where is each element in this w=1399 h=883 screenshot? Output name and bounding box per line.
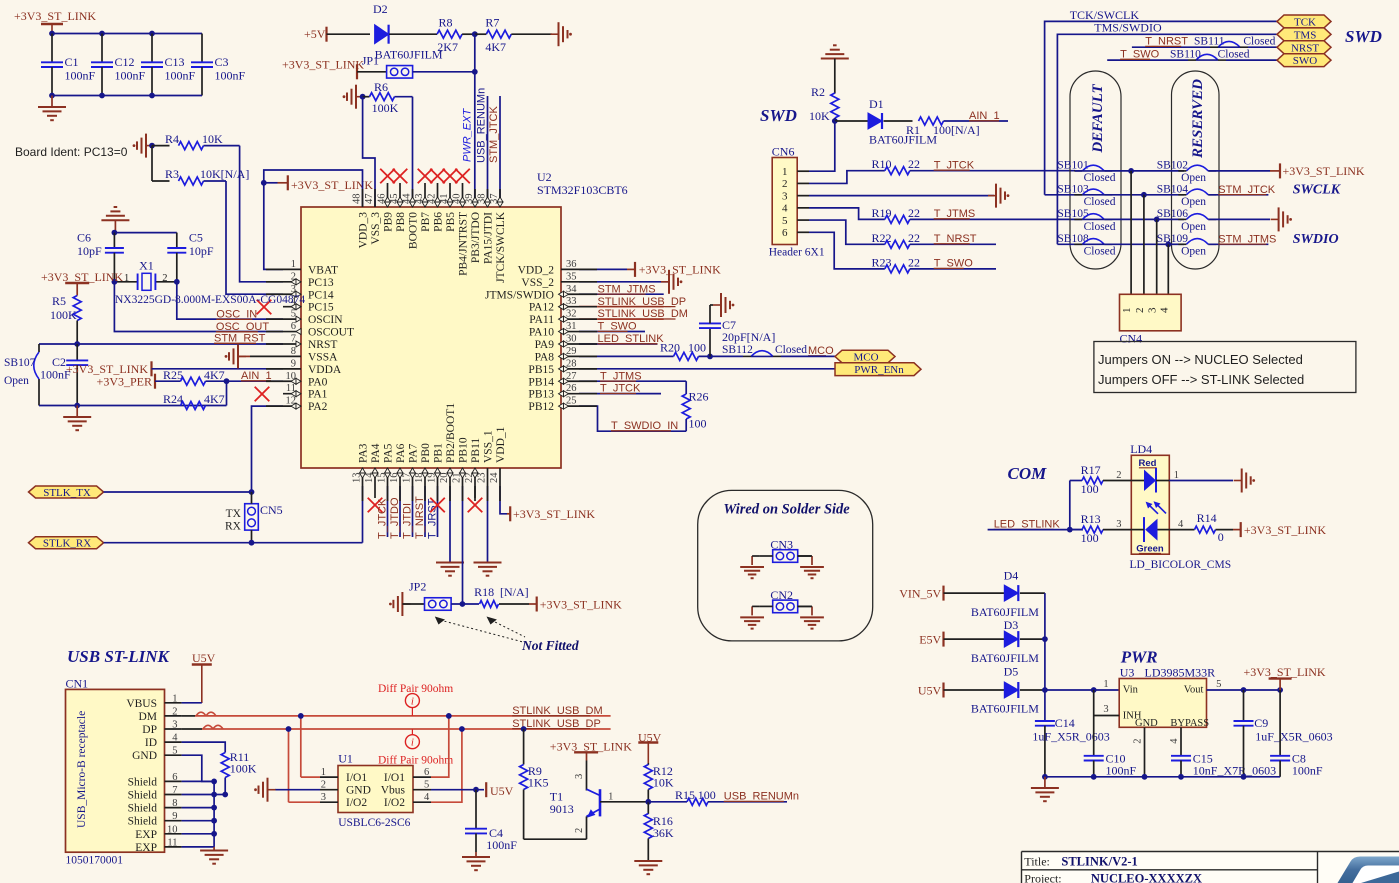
svg-text:2: 2 bbox=[574, 828, 585, 833]
svg-text:SWCLK: SWCLK bbox=[1293, 183, 1342, 198]
svg-text:R6: R6 bbox=[374, 80, 388, 94]
svg-text:U5V: U5V bbox=[490, 784, 514, 798]
group frame DEFAULT bbox=[1070, 71, 1121, 269]
ground (U1 GND) bbox=[275, 789, 320, 791]
wire JP1 to PWR_EXT net bbox=[413, 71, 475, 73]
svg-text:PB0: PB0 bbox=[420, 443, 432, 463]
pin 9 CN1 Shield bbox=[165, 820, 182, 822]
pin 2 CN1 DM bbox=[165, 715, 182, 717]
svg-text:+3V3_ST_LINK: +3V3_ST_LINK bbox=[540, 598, 622, 612]
wire STLK_TX to PA2 bbox=[104, 491, 252, 493]
svg-text:JP1: JP1 bbox=[362, 54, 379, 68]
ground (R16) bbox=[634, 860, 662, 862]
svg-text:PB11: PB11 bbox=[470, 438, 482, 463]
svg-text:100: 100 bbox=[698, 788, 716, 802]
wire STLINK_USB_DM (pin32) bbox=[579, 318, 664, 320]
svg-text:PB9: PB9 bbox=[383, 212, 395, 232]
svg-text:1: 1 bbox=[124, 273, 129, 284]
ground (crystal) inverted bbox=[101, 219, 129, 221]
svg-text:C6: C6 bbox=[77, 231, 91, 245]
svg-text:100: 100 bbox=[1081, 531, 1099, 545]
svg-text:Board Ident: PC13=0: Board Ident: PC13=0 bbox=[15, 145, 128, 159]
pin stub overlays left bbox=[266, 268, 283, 270]
wire T_NRST (bottom stub) bbox=[424, 486, 426, 537]
wire EXP pin11 bbox=[182, 846, 215, 848]
wire T_SWDIO_IN (pin25) bbox=[579, 406, 686, 431]
svg-text:100nF: 100nF bbox=[1292, 764, 1323, 778]
ground (LD4) bbox=[1234, 480, 1242, 482]
svg-text:JTMS/SWDIO: JTMS/SWDIO bbox=[485, 289, 554, 301]
pin 17 PA7 bbox=[412, 468, 414, 486]
svg-text:10pF: 10pF bbox=[189, 244, 214, 258]
svg-text:Closed: Closed bbox=[775, 344, 807, 356]
capacitor C8 bbox=[1279, 690, 1281, 756]
svg-text:R25: R25 bbox=[163, 368, 183, 382]
svg-text:MCO: MCO bbox=[853, 352, 878, 364]
svg-text:5: 5 bbox=[782, 215, 788, 227]
svg-text:SB102: SB102 bbox=[1157, 159, 1189, 171]
diff pair hop DM bbox=[196, 712, 216, 716]
svg-text:U2: U2 bbox=[537, 170, 552, 184]
svg-text:+3V3_ST_LINK: +3V3_ST_LINK bbox=[14, 9, 96, 23]
svg-text:Jumpers OFF --> ST-LINK Select: Jumpers OFF --> ST-LINK Selected bbox=[1098, 372, 1304, 387]
svg-text:GND: GND bbox=[1135, 718, 1158, 729]
svg-text:TMS: TMS bbox=[1294, 29, 1317, 41]
wire CN4 pin3 bbox=[1156, 219, 1158, 294]
node R20/C7 junction bbox=[707, 354, 713, 360]
svg-text:7: 7 bbox=[291, 333, 296, 344]
no-connect X top pin x=387.5 bbox=[387, 183, 389, 189]
svg-text:4: 4 bbox=[1158, 307, 1170, 313]
svg-text:3: 3 bbox=[321, 792, 326, 803]
svg-text:NX3225GD-8.000M-EXS00A-CG04874: NX3225GD-8.000M-EXS00A-CG04874 bbox=[115, 294, 305, 306]
svg-text:I/O2: I/O2 bbox=[346, 797, 367, 809]
svg-text:10K: 10K bbox=[809, 109, 830, 123]
svg-text:DP: DP bbox=[142, 724, 157, 736]
capacitor C7 20pF bbox=[709, 328, 711, 356]
wire CN6 pin2 to R10 bbox=[809, 171, 885, 184]
wire STM_JTMS (pin34) bbox=[579, 293, 664, 295]
svg-text:1: 1 bbox=[1174, 470, 1179, 481]
pin 4 U1 I/O2 bbox=[413, 801, 431, 803]
svg-text:Closed: Closed bbox=[1084, 196, 1116, 208]
wire R4 to PC13 bbox=[240, 146, 283, 282]
svg-text:Title:: Title: bbox=[1024, 855, 1050, 869]
pin 3 CN1 DP bbox=[165, 728, 182, 730]
pin 42 PB6 bbox=[437, 189, 439, 207]
svg-text:1uF_X5R_0603: 1uF_X5R_0603 bbox=[1255, 729, 1332, 743]
svg-text:2: 2 bbox=[172, 706, 177, 717]
port PWR_ENn bbox=[835, 363, 921, 376]
wire CN4 pin1 bbox=[1130, 171, 1132, 294]
pin 32 PA11 bbox=[561, 318, 579, 320]
svg-text:100nF: 100nF bbox=[115, 69, 146, 83]
pin 23 VSS_1 bbox=[487, 468, 489, 486]
svg-text:VSS_2: VSS_2 bbox=[521, 277, 554, 289]
port SWO bbox=[1277, 54, 1331, 67]
svg-text:SB112: SB112 bbox=[722, 344, 753, 356]
svg-text:PB2/BOOT1: PB2/BOOT1 bbox=[445, 403, 457, 463]
svg-text:10K[N/A]: 10K[N/A] bbox=[200, 167, 249, 181]
svg-text:VSS_3: VSS_3 bbox=[370, 212, 382, 245]
wire VSS_1 to ground bbox=[487, 486, 489, 562]
port TCK bbox=[1277, 15, 1331, 28]
svg-text:9: 9 bbox=[172, 811, 177, 822]
wire top rail C1-C3 bbox=[52, 33, 202, 35]
svg-text:Vout: Vout bbox=[1184, 684, 1204, 695]
node SB108/CN4 pin4 bbox=[1165, 241, 1171, 247]
power flag +3V3_ST_LINK (LD4) bbox=[1233, 529, 1241, 531]
wire R6 to BOOT0 pin44 bbox=[412, 97, 414, 207]
resistor R16 bbox=[647, 802, 649, 814]
svg-text:EXP: EXP bbox=[135, 842, 157, 854]
svg-text:JP2: JP2 bbox=[409, 580, 426, 594]
pin 31 PA10 bbox=[561, 331, 579, 333]
wire U1 pin6 to DM bbox=[431, 716, 449, 777]
node R2/D1 junction bbox=[832, 118, 838, 124]
wire GND to VSS_3 pin47 bbox=[363, 97, 375, 207]
svg-text:I/O1: I/O1 bbox=[384, 772, 405, 784]
svg-text:+5V: +5V bbox=[304, 27, 326, 41]
ground (R2) inverted bbox=[821, 58, 849, 60]
svg-text:D3: D3 bbox=[1004, 618, 1019, 632]
resistor R11 bbox=[182, 742, 226, 752]
wire OSC_IN bbox=[177, 282, 283, 319]
no-connect X pin PA4 bbox=[374, 486, 376, 498]
svg-text:Not Fitted: Not Fitted bbox=[521, 638, 579, 653]
pin 5 OSCIN bbox=[283, 318, 301, 320]
pin 47 VSS_3 bbox=[374, 189, 376, 207]
svg-text:5: 5 bbox=[291, 309, 296, 320]
svg-text:PB5: PB5 bbox=[445, 212, 457, 232]
pin 30 PA9 bbox=[561, 343, 579, 345]
capacitor C14 bbox=[1035, 720, 1055, 722]
svg-text:PB6: PB6 bbox=[433, 212, 445, 232]
svg-text:36: 36 bbox=[566, 259, 577, 270]
svg-text:48: 48 bbox=[352, 194, 363, 205]
svg-text:PC15: PC15 bbox=[308, 302, 334, 314]
pin 14 PA4 bbox=[374, 468, 376, 486]
pin 1 VBAT bbox=[283, 268, 301, 270]
svg-text:U1: U1 bbox=[338, 751, 353, 765]
svg-text:SWD: SWD bbox=[760, 106, 797, 125]
svg-text:1K5: 1K5 bbox=[528, 776, 549, 790]
svg-text:Vbus: Vbus bbox=[381, 785, 406, 797]
svg-text:BAT60JFILM: BAT60JFILM bbox=[375, 48, 443, 62]
svg-text:1: 1 bbox=[291, 259, 296, 270]
svg-text:R1: R1 bbox=[906, 123, 920, 137]
svg-text:32: 32 bbox=[566, 309, 577, 320]
node shield rail junction bbox=[211, 831, 217, 837]
svg-text:BAT60JFILM: BAT60JFILM bbox=[971, 702, 1039, 716]
resistor R14 bbox=[1169, 529, 1194, 531]
svg-text:100nF: 100nF bbox=[1106, 764, 1137, 778]
svg-text:VDD_3: VDD_3 bbox=[358, 212, 370, 249]
resistor R26 bbox=[685, 381, 687, 394]
pin 7 CN1 Shield bbox=[165, 794, 182, 796]
svg-text:VDD_1: VDD_1 bbox=[495, 426, 507, 463]
svg-text:BAT60JFILM: BAT60JFILM bbox=[971, 605, 1039, 619]
pin 4 PC15 bbox=[283, 306, 301, 308]
wire CN4 pin2 bbox=[1143, 195, 1145, 294]
svg-text:DEFAULT: DEFAULT bbox=[1090, 83, 1106, 153]
solder bridge SB111 closed bbox=[1132, 46, 1210, 48]
svg-text:4: 4 bbox=[782, 203, 788, 215]
pin 21 PB10 bbox=[462, 468, 464, 486]
capacitor C12 bbox=[101, 34, 103, 63]
svg-text:4: 4 bbox=[172, 733, 178, 744]
port MCO bbox=[835, 350, 895, 363]
svg-text:2: 2 bbox=[1134, 308, 1146, 314]
node JP1/pin39 junction bbox=[472, 69, 478, 75]
svg-text:VDDA: VDDA bbox=[308, 364, 342, 376]
no-connect X top pin x=462.5 bbox=[462, 183, 464, 189]
power flag +3V3_ST_LINK (VDD_1) bbox=[500, 486, 507, 514]
svg-text:+3V3_ST_LINK: +3V3_ST_LINK bbox=[282, 58, 364, 72]
wire T_SWO (pin31) bbox=[579, 331, 645, 333]
svg-text:SB109: SB109 bbox=[1157, 233, 1189, 245]
note box jumpers bbox=[1094, 342, 1356, 393]
node JP2/PB10 bbox=[460, 601, 466, 607]
svg-text:SB107: SB107 bbox=[4, 357, 36, 369]
node STLK_TX/CN5 bbox=[249, 489, 255, 495]
capacitor C6 bbox=[113, 233, 115, 248]
pin 2 U1 GND bbox=[320, 789, 338, 791]
title block lines bbox=[1022, 852, 1399, 883]
svg-text:JTCK/SWCLK: JTCK/SWCLK bbox=[495, 211, 507, 283]
port NRST bbox=[1277, 41, 1331, 54]
svg-text:Closed: Closed bbox=[1084, 221, 1116, 233]
pin 43 PB7 bbox=[424, 189, 426, 207]
svg-text:PWR_ENn: PWR_ENn bbox=[854, 364, 904, 376]
port STLK_TX bbox=[29, 486, 104, 498]
LED red (LD4) bbox=[1144, 470, 1156, 492]
wire STLK_RX to PA3 bbox=[104, 542, 363, 544]
svg-text:CN6: CN6 bbox=[772, 144, 795, 158]
ground (R6) bbox=[356, 96, 364, 98]
svg-text:4: 4 bbox=[1178, 519, 1184, 530]
node R11/pin7 junction bbox=[222, 792, 228, 798]
svg-text:100nF: 100nF bbox=[165, 69, 196, 83]
svg-text:COM: COM bbox=[1008, 464, 1048, 483]
svg-text:D5: D5 bbox=[1004, 665, 1019, 679]
pin 40 PB4/JNTRST bbox=[462, 189, 464, 207]
svg-text:10K: 10K bbox=[202, 132, 223, 146]
pin stub overlays right bbox=[579, 268, 597, 270]
svg-text:ID: ID bbox=[145, 737, 157, 749]
svg-text:31: 31 bbox=[566, 321, 577, 332]
svg-text:PA15/JTDI: PA15/JTDI bbox=[483, 212, 495, 264]
svg-text:SB106: SB106 bbox=[1157, 208, 1189, 220]
svg-text:PWR_EXT: PWR_EXT bbox=[462, 108, 474, 162]
wire C2 ground rail bbox=[39, 405, 227, 407]
svg-text:+3V3_ST_LINK: +3V3_ST_LINK bbox=[513, 507, 595, 521]
svg-text:PA12: PA12 bbox=[529, 302, 554, 314]
svg-text:i: i bbox=[411, 737, 414, 749]
ground (CN2 left) bbox=[740, 616, 764, 618]
svg-text:C1: C1 bbox=[65, 55, 79, 69]
svg-text:I/O1: I/O1 bbox=[346, 772, 367, 784]
svg-text:VBAT: VBAT bbox=[308, 264, 338, 276]
svg-text:5: 5 bbox=[424, 780, 429, 791]
node T1 base junction bbox=[645, 799, 651, 805]
svg-text:1: 1 bbox=[172, 693, 177, 704]
svg-text:PA10: PA10 bbox=[529, 327, 554, 339]
svg-text:PA7: PA7 bbox=[408, 443, 420, 463]
svg-text:34: 34 bbox=[566, 284, 577, 295]
svg-text:PA3: PA3 bbox=[358, 443, 370, 463]
svg-text:10K: 10K bbox=[653, 776, 674, 790]
svg-text:VSS_1: VSS_1 bbox=[483, 430, 495, 463]
svg-text:6: 6 bbox=[172, 772, 177, 783]
svg-text:CN4: CN4 bbox=[1120, 331, 1143, 345]
wire CN6 pin5 to R22 bbox=[809, 220, 885, 244]
svg-text:C9: C9 bbox=[1254, 716, 1268, 730]
pin 48 VDD_3 bbox=[362, 189, 364, 207]
pin 6 CN1 Shield bbox=[165, 780, 182, 782]
wire JP2 to R18 bbox=[451, 603, 479, 605]
svg-text:PC13: PC13 bbox=[308, 277, 334, 289]
no-connect X pin PB11 bbox=[474, 486, 476, 498]
svg-text:D1: D1 bbox=[869, 97, 884, 111]
ground (C7) bbox=[713, 304, 721, 306]
svg-text:R26: R26 bbox=[689, 390, 709, 404]
pin 36 VDD_2 bbox=[561, 268, 579, 270]
ground (R7) bbox=[551, 33, 559, 35]
power flag +3V3_ST_LINK (SB102) bbox=[1270, 170, 1280, 172]
no-connect X pin PA1 bbox=[255, 387, 270, 402]
svg-text:47: 47 bbox=[364, 194, 375, 205]
svg-text:Shield: Shield bbox=[128, 790, 158, 802]
svg-text:PA1: PA1 bbox=[308, 389, 328, 401]
node Vout junctions bbox=[1241, 687, 1247, 693]
svg-text:4: 4 bbox=[1169, 738, 1180, 744]
svg-text:6: 6 bbox=[424, 767, 429, 778]
svg-text:D4: D4 bbox=[1004, 568, 1019, 582]
svg-text:PB12: PB12 bbox=[528, 401, 554, 413]
wire T_JTDI (bottom stub) bbox=[412, 486, 414, 537]
pin 22 PB11 bbox=[474, 468, 476, 486]
ground (PWR) bbox=[1044, 777, 1046, 788]
wire bottom rail C1-C3 bbox=[52, 95, 202, 97]
pin 10 PA0 bbox=[283, 380, 301, 382]
resistor R17 bbox=[1069, 481, 1071, 530]
wire shield stub bbox=[182, 794, 215, 796]
svg-text:PA0: PA0 bbox=[308, 376, 328, 388]
node NRST/R5 bbox=[74, 341, 80, 347]
svg-text:Wired on Solder Side: Wired on Solder Side bbox=[723, 502, 850, 518]
pin 45 PB8 bbox=[399, 189, 401, 207]
svg-text:100nF: 100nF bbox=[215, 69, 246, 83]
pin 4 U3 BYPASS wire bbox=[1180, 727, 1182, 756]
wire NRST STM_RST bbox=[39, 343, 283, 345]
svg-text:EXP: EXP bbox=[135, 829, 157, 841]
svg-text:20pF[N/A]: 20pF[N/A] bbox=[722, 330, 775, 344]
node R8/R7 junction bbox=[472, 31, 478, 37]
svg-text:VDD_2: VDD_2 bbox=[518, 264, 555, 276]
svg-text:STLINK/V2-1: STLINK/V2-1 bbox=[1061, 855, 1137, 869]
svg-text:100: 100 bbox=[1081, 482, 1099, 496]
wire R3 to PC14 bbox=[226, 181, 283, 294]
capacitor C4 bbox=[475, 790, 477, 829]
svg-text:27: 27 bbox=[566, 371, 577, 382]
ground (R4/R3) bbox=[146, 145, 154, 147]
pin 7 NRST bbox=[283, 343, 301, 345]
pin 35 VSS_2 bbox=[561, 281, 579, 283]
wire LD4 pin1 to ground bbox=[1169, 480, 1233, 482]
wire pin37 vertical STM_JTCK bbox=[499, 96, 501, 207]
svg-text:8: 8 bbox=[172, 798, 177, 809]
capacitor C15 bbox=[1171, 755, 1191, 757]
svg-text:PA6: PA6 bbox=[395, 443, 407, 463]
svg-text:4: 4 bbox=[424, 792, 430, 803]
svg-text:3: 3 bbox=[1147, 307, 1159, 313]
diff pair hop DP bbox=[203, 725, 223, 729]
solder bridge SB112 closed bbox=[751, 351, 773, 357]
resistor R2 bbox=[834, 59, 836, 94]
svg-text:3: 3 bbox=[1103, 704, 1108, 715]
svg-text:5: 5 bbox=[1216, 679, 1221, 690]
svg-text:GND: GND bbox=[346, 785, 371, 797]
wire T_JTMS (pin27) bbox=[579, 380, 686, 382]
pin 46 PB9 bbox=[387, 189, 389, 207]
svg-text:I/O2: I/O2 bbox=[384, 797, 405, 809]
ground (VSS_2) bbox=[579, 281, 668, 283]
svg-text:9013: 9013 bbox=[550, 802, 574, 816]
svg-text:1uF_X5R_0603: 1uF_X5R_0603 bbox=[1032, 729, 1109, 743]
svg-text:T_JTDO: T_JTDO bbox=[389, 497, 401, 539]
node shield rail junction bbox=[211, 779, 217, 785]
svg-text:+3V3_ST_LINK: +3V3_ST_LINK bbox=[1244, 523, 1326, 537]
svg-text:LD3985M33R: LD3985M33R bbox=[1145, 666, 1216, 680]
wire U1 pin1 to DM bbox=[300, 716, 302, 777]
svg-text:10: 10 bbox=[167, 824, 178, 835]
resistor R9 bbox=[521, 726, 527, 732]
ground (C2/SB107) bbox=[76, 406, 78, 418]
svg-text:100: 100 bbox=[688, 341, 706, 355]
MCU U2 STM32F103CBT6 body bbox=[301, 207, 561, 468]
resistor R15 bbox=[648, 801, 687, 803]
svg-text:BOOT0: BOOT0 bbox=[408, 212, 420, 249]
svg-text:35: 35 bbox=[566, 271, 577, 282]
node shield rail junction bbox=[211, 818, 217, 824]
wire T_JRST (bottom stub) bbox=[437, 486, 439, 537]
note box Wired on Solder Side bbox=[698, 490, 873, 641]
wire PB2 to ground bbox=[449, 486, 451, 562]
resistor R4 bbox=[152, 145, 170, 147]
power flag +3V3_ST_LINK (R18) bbox=[529, 603, 537, 605]
ground (C4) bbox=[475, 852, 477, 856]
svg-text:PA9: PA9 bbox=[535, 339, 555, 351]
ground (SB106) bbox=[1271, 218, 1279, 220]
svg-text:100K: 100K bbox=[50, 308, 77, 322]
LED arrows (green) bbox=[1149, 505, 1159, 514]
svg-text:SWD: SWD bbox=[1345, 27, 1382, 46]
node Vin junction bbox=[1091, 687, 1097, 693]
svg-text:1: 1 bbox=[1121, 308, 1133, 314]
svg-text:R14: R14 bbox=[1197, 511, 1217, 525]
no-connect X top pin x=400 bbox=[399, 183, 401, 189]
wire PWR ground rail bbox=[1045, 776, 1280, 778]
svg-text:+3V3_ST_LINK: +3V3_ST_LINK bbox=[1283, 164, 1365, 178]
svg-text:4K7: 4K7 bbox=[204, 368, 225, 382]
port STLK_RX bbox=[29, 537, 104, 549]
svg-text:11: 11 bbox=[167, 837, 177, 848]
info circle 1 bbox=[405, 694, 419, 708]
svg-text:9: 9 bbox=[291, 358, 296, 369]
node crystal pin1/pin2 bbox=[112, 279, 118, 285]
svg-text:PA4: PA4 bbox=[370, 443, 382, 463]
